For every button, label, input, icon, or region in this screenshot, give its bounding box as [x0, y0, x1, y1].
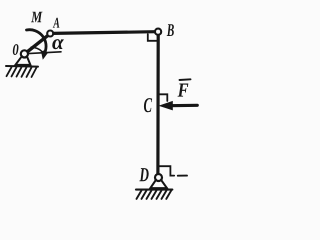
label M	[31, 12, 43, 22]
angle alpha arc	[31, 47, 42, 51]
support D ground line	[136, 189, 172, 191]
bar BD (vertical beam)	[156, 34, 160, 174]
support O hatching	[7, 67, 37, 77]
support O ground line	[6, 65, 38, 68]
right-angle mark at D with stub	[160, 166, 175, 175]
label D	[139, 168, 148, 181]
label C	[144, 98, 152, 112]
link OA (crank)	[25, 34, 50, 54]
dash right of D	[178, 175, 187, 177]
bar AB (horizontal beam)	[53, 32, 156, 34]
support O triangle	[15, 56, 30, 65]
moment M arrowhead	[41, 50, 48, 60]
right-angle mark at C	[159, 94, 168, 101]
pin D circle	[155, 174, 162, 181]
label A	[53, 18, 60, 28]
label alpha	[52, 39, 64, 49]
label O	[13, 44, 19, 55]
label F	[178, 84, 189, 97]
pin O circle	[21, 50, 28, 57]
force F shaft	[169, 104, 197, 107]
force F arrowhead	[159, 101, 173, 111]
right-angle mark at B	[148, 34, 157, 41]
pin A circle	[47, 31, 53, 37]
moment M arc	[27, 30, 47, 53]
horizontal reference line at O	[28, 52, 61, 54]
F overbar	[180, 78, 191, 81]
pin B circle	[155, 29, 161, 35]
support D triangle	[150, 180, 167, 188]
label B	[167, 24, 174, 36]
support D hatching	[137, 190, 172, 199]
